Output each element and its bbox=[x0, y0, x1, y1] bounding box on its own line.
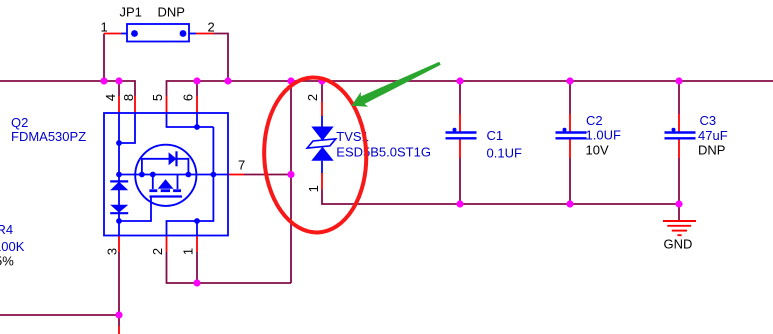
Q2 blue junction dot pin1 bottom bbox=[194, 218, 200, 224]
Q2 ESD diode D2 bar (cathode down) bbox=[110, 212, 128, 214]
pin stub C1 top bbox=[459, 114, 461, 133]
JP1 pad dot right bbox=[180, 30, 187, 37]
Q2 blue junction dot rail/gate-horizontal bbox=[116, 172, 122, 178]
pin stub C3 top bbox=[678, 114, 680, 133]
junction dot JP1 pin2/bus bbox=[224, 77, 231, 84]
Q2 inner pin6 link bbox=[196, 113, 198, 127]
TVS1 bottom triangle bbox=[311, 147, 333, 161]
wire Q2 pin2 bottom L bbox=[167, 252, 292, 283]
svg-text:5%: 5% bbox=[0, 254, 14, 269]
Q2 inner pin8 link bbox=[119, 113, 135, 143]
ground symbol bbox=[663, 221, 696, 235]
Q2 blue junction dot pin6 top bbox=[194, 124, 200, 130]
Q2 channel dash right bbox=[173, 189, 181, 192]
wire Q2 pin3 down bbox=[118, 252, 120, 326]
svg-text:C1: C1 bbox=[487, 128, 504, 143]
pin stub TVS pin1 bbox=[321, 173, 323, 189]
pin stub C2 bottom bbox=[569, 139, 571, 159]
Q2 ESD diode D2 triangle bbox=[110, 205, 128, 213]
TVS1 bottom blue stub bbox=[321, 161, 323, 173]
svg-text:10V: 10V bbox=[586, 143, 609, 158]
junction dot Q2 pin1 bottom wire bbox=[193, 279, 200, 286]
svg-text:C3: C3 bbox=[700, 113, 717, 128]
Q2 body diode triangle bbox=[169, 152, 177, 165]
wire TVS pin2 drop bbox=[321, 81, 323, 102]
junction dot C1/bus bbox=[456, 77, 463, 84]
JP1 blue stub left bbox=[121, 33, 127, 35]
svg-text:DNP: DNP bbox=[158, 5, 185, 20]
wire JP1 pin1 to bus bbox=[103, 34, 105, 82]
svg-text:100K: 100K bbox=[0, 239, 25, 254]
wire TVS pin1 to bottom rail bbox=[322, 189, 679, 204]
capacitor C2 polarity dot bbox=[563, 128, 567, 132]
wire GND drop bbox=[678, 204, 680, 221]
svg-text:DNP: DNP bbox=[698, 143, 725, 158]
junction dot C2/bus bbox=[566, 77, 573, 84]
transistor Q2 outer box bbox=[104, 113, 228, 236]
pin stub Q2 pin8 bbox=[134, 96, 136, 113]
svg-text:2: 2 bbox=[305, 94, 320, 101]
junction dot C2/bottom rail bbox=[566, 200, 573, 207]
pin stub Q2 pin2 bbox=[166, 236, 168, 253]
junction dot C3/bus bbox=[675, 77, 682, 84]
svg-text:2: 2 bbox=[208, 20, 215, 35]
wire bus segment B (right) bbox=[167, 81, 773, 96]
wire C3 bottom drop bbox=[678, 158, 680, 204]
pin stub C3 bottom bbox=[678, 139, 680, 159]
TVS1 crossbar bbox=[307, 139, 336, 148]
svg-text:FDMA530PZ: FDMA530PZ bbox=[11, 129, 86, 144]
Q2 inner pin1 link bbox=[196, 221, 198, 236]
Q2 blue junction dot right rail cross bbox=[211, 172, 217, 178]
svg-text:6: 6 bbox=[181, 94, 196, 101]
svg-text:1: 1 bbox=[181, 248, 196, 255]
Q2 drain stub bbox=[177, 175, 179, 190]
junction dot C3/GND bbox=[675, 200, 682, 207]
svg-text:2: 2 bbox=[150, 248, 165, 255]
junction dot pin6/bus bbox=[193, 77, 200, 84]
wire C3 top drop bbox=[678, 81, 680, 114]
Q2 inner right rail bbox=[167, 127, 214, 236]
svg-text:7: 7 bbox=[238, 158, 245, 173]
Q2 gate link wire bbox=[119, 197, 151, 222]
pin stub Q2 pin3 bbox=[118, 236, 120, 253]
capacitor C1 plates bbox=[446, 133, 477, 139]
wire bus segment A (left) bbox=[0, 81, 135, 96]
Q2 blue junction dot source bbox=[150, 172, 156, 178]
wire pin4 drop bbox=[118, 81, 120, 96]
wire vertical bus-to-bottom at x291 bbox=[290, 81, 292, 283]
Q2 body-diode loop bbox=[142, 159, 189, 175]
svg-text:1: 1 bbox=[306, 185, 321, 192]
Q2 channel dash mid bbox=[161, 189, 170, 192]
Q2 source stub bbox=[152, 175, 154, 190]
pin stub C2 top bbox=[569, 114, 571, 133]
svg-text:ESD5B5.0ST1G: ESD5B5.0ST1G bbox=[336, 145, 431, 160]
svg-text:47uF: 47uF bbox=[698, 128, 728, 143]
Q2 main S-D horizontal bbox=[119, 174, 228, 176]
jumper JP1 body bbox=[127, 24, 189, 42]
svg-text:1.0UF: 1.0UF bbox=[586, 128, 621, 143]
TVS1 top triangle bbox=[311, 127, 333, 141]
svg-text:4: 4 bbox=[103, 94, 118, 101]
annotation red ellipse bbox=[262, 76, 369, 234]
JP1 blue stub right bbox=[189, 33, 196, 35]
junction dot pin4/bus bbox=[115, 77, 122, 84]
wire C2 bottom drop bbox=[569, 158, 571, 204]
wire JP1 pin2 to bus bbox=[214, 34, 228, 82]
Q2 inner left rail (pins 4/3) bbox=[118, 113, 120, 236]
junction dot JP1 pin1/bus bbox=[100, 77, 107, 84]
wire pin7 horizontal bbox=[244, 174, 291, 176]
svg-text:R4: R4 bbox=[0, 222, 13, 237]
svg-text:5: 5 bbox=[150, 94, 165, 101]
pin stub C1 bottom bbox=[459, 139, 461, 159]
junction dot C1/bottom rail bbox=[456, 200, 463, 207]
pin stub Q2 pin4 bbox=[118, 96, 120, 113]
capacitor C2 plates bbox=[556, 133, 587, 139]
svg-text:GND: GND bbox=[664, 237, 693, 252]
svg-text:1: 1 bbox=[101, 20, 108, 35]
Q2 body arrow bbox=[158, 179, 174, 189]
TVS1 top blue stub bbox=[321, 116, 323, 127]
pin stub Q2 pin1 bbox=[196, 236, 198, 253]
Q2 ESD diode D1 triangle bbox=[110, 182, 128, 191]
pin stub JP1 pin2 bbox=[196, 33, 214, 35]
Q2 ESD diode D1 bar (cathode up) bbox=[110, 180, 128, 182]
junction dot x291/bus bbox=[287, 77, 294, 84]
Q2 gate bar bbox=[150, 195, 183, 197]
pin stub Q2 pin5 bbox=[166, 96, 168, 113]
pin stub Q2 pin6 bbox=[196, 96, 198, 113]
pin stub R4 bottom edge bbox=[118, 326, 120, 334]
wire pin6 drop bbox=[196, 81, 198, 96]
svg-text:JP1: JP1 bbox=[120, 5, 142, 20]
annotation green arrow bbox=[352, 62, 441, 107]
svg-text:3: 3 bbox=[105, 248, 120, 255]
svg-text:Q2: Q2 bbox=[11, 115, 28, 130]
pin stub JP1 pin1 bbox=[104, 33, 121, 35]
Q2 blue junction dot rail/bottom bbox=[116, 218, 122, 224]
capacitor C1 polarity dot bbox=[453, 128, 457, 132]
JP1 pad dot left bbox=[131, 30, 138, 37]
pin stub Q2 pin7 bbox=[228, 174, 244, 176]
wire C2 top drop bbox=[569, 81, 571, 114]
Q2 blue junction dot pin8/rail bbox=[116, 140, 122, 146]
Q2 blue junction dot diode loop right bbox=[186, 172, 192, 178]
capacitor C3 plates bbox=[665, 133, 696, 139]
pin stub TVS pin2 bbox=[321, 102, 323, 116]
capacitor C3 polarity dot bbox=[672, 128, 676, 132]
junction dot pin7 tee bbox=[287, 171, 294, 178]
wire bottom-left horizontal bbox=[0, 314, 119, 316]
wire C1 bottom drop bbox=[459, 158, 461, 204]
svg-text:8: 8 bbox=[121, 94, 136, 101]
Q2 blue junction dot diode loop left bbox=[139, 172, 145, 178]
Q2 body diode cathode bar bbox=[175, 151, 177, 166]
wire C1 top drop bbox=[459, 81, 461, 114]
svg-text:0.1UF: 0.1UF bbox=[487, 146, 522, 161]
Q2 channel dash left bbox=[149, 189, 157, 192]
junction dot bottom-left bbox=[115, 311, 122, 318]
svg-text:C2: C2 bbox=[586, 113, 603, 128]
Q2 MOSFET circle bbox=[135, 145, 196, 206]
junction dot TVS/bus bbox=[318, 77, 325, 84]
wire Q2 pin1 drop bbox=[196, 252, 198, 283]
Q2 inner pin5 link bbox=[167, 113, 214, 127]
